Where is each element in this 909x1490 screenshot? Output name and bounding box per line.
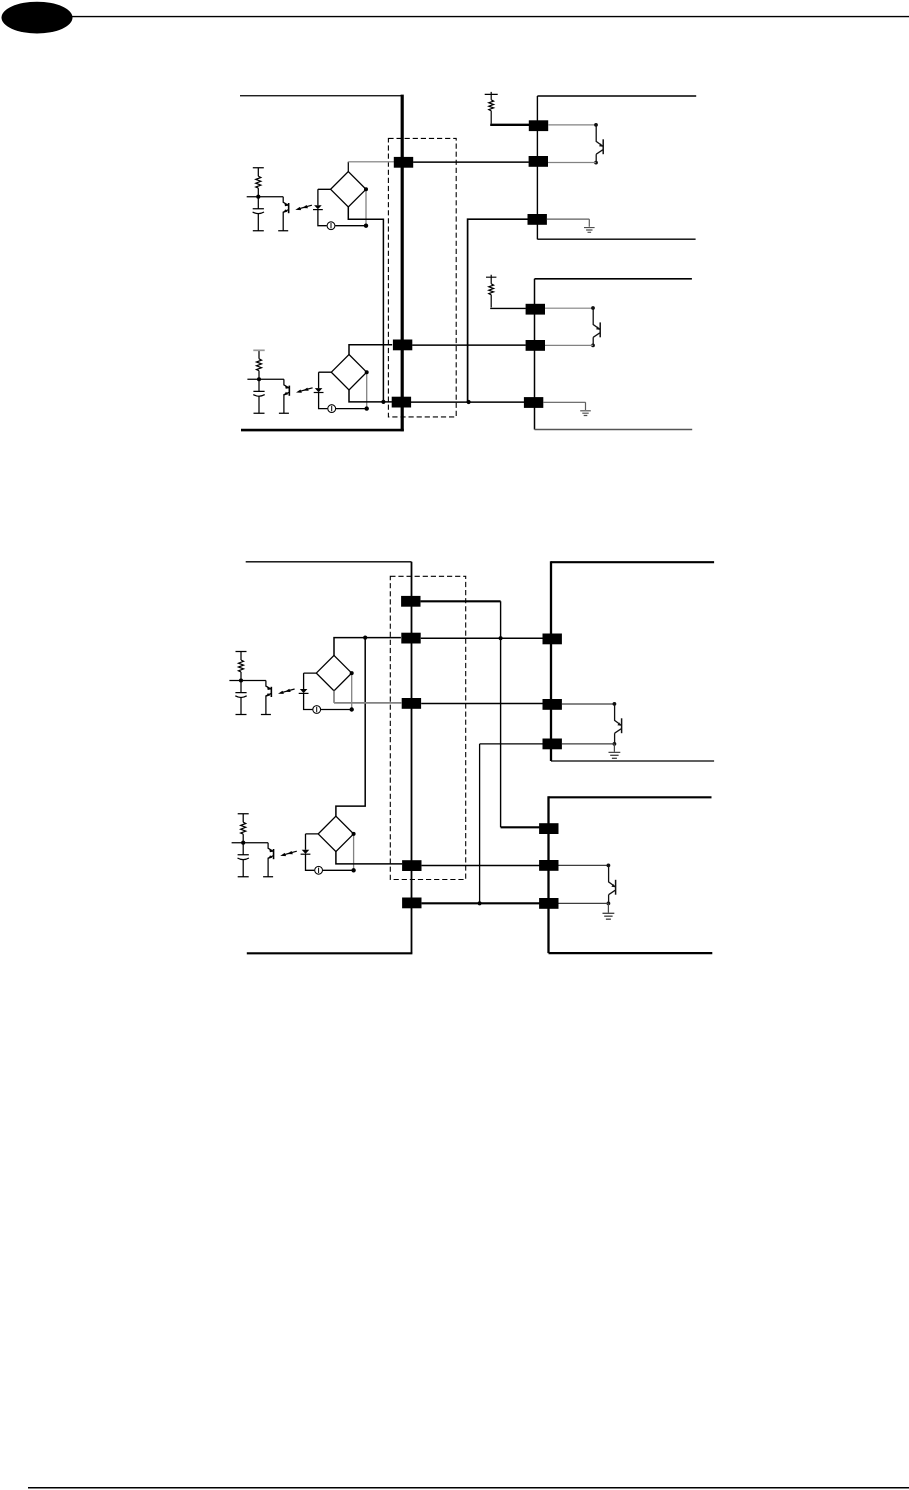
wire (grey) V2-3 to Q4 emitter	[559, 902, 609, 904]
wire Q1 emitter	[595, 154, 597, 162]
wire B3 top to row2	[334, 638, 401, 656]
wire (grey) U2-3 to ground	[543, 402, 585, 410]
wire (grey) V2-2 to Q4 collector	[559, 864, 609, 866]
wire (grey) U1-2 to Q1 emitter	[548, 162, 596, 164]
controller2 bus line	[411, 562, 413, 954]
wire B2 top to terminal T2	[349, 345, 392, 355]
terminal U2-2	[526, 340, 545, 351]
transistor Q4	[607, 864, 616, 895]
terminal U1-2	[529, 156, 548, 167]
wire link to B4	[336, 638, 365, 817]
shielded cable box	[388, 138, 456, 417]
terminal V2-3	[539, 898, 558, 909]
wire drive COM link	[468, 219, 528, 402]
wire row1 power feed	[421, 600, 501, 602]
driver unit 2 frame bottom	[535, 429, 693, 431]
terminal V1-2	[543, 699, 562, 710]
junction dot row5	[478, 901, 482, 905]
transistor Q2	[591, 306, 600, 337]
wire Q4 emitter	[608, 895, 610, 904]
node Q2 emitter dot	[591, 344, 595, 348]
driver unit 2 frame left	[534, 279, 536, 430]
wire feed drop	[500, 601, 502, 827]
footer rule	[28, 1487, 909, 1489]
terminal S3	[402, 698, 421, 709]
wire Q3 emitter	[614, 733, 616, 744]
wire row5	[422, 902, 540, 904]
receiver unit 1 frame bottom	[551, 760, 714, 762]
node Q1 emitter dot	[594, 161, 598, 165]
terminal V1-3	[543, 739, 562, 750]
terminal V2-1	[539, 823, 558, 834]
terminal V2-2	[539, 860, 558, 871]
wire B1 bottom run down	[348, 207, 383, 402]
transistor Q3	[613, 702, 622, 733]
driver unit 2 frame top	[535, 278, 692, 280]
wire (grey) V1-3 to Q3 emitter	[562, 743, 615, 745]
ground GND3	[609, 752, 621, 758]
driver unit 1 frame top	[537, 95, 696, 97]
driver unit 1 frame bottom	[537, 238, 695, 240]
terminal U1-3	[528, 214, 547, 225]
junction dot row2	[363, 636, 367, 640]
wire row3	[421, 703, 543, 705]
terminal T3	[392, 397, 411, 408]
controller bus line	[401, 95, 404, 432]
terminal U1-1	[529, 120, 548, 131]
receiver unit 1 frame top	[551, 561, 714, 563]
wire (grey) U2-1 to Q2 collector	[545, 307, 593, 309]
wire (grey) B3 bottom to terminal S3	[334, 691, 401, 703]
node Q4 emitter dot	[607, 902, 611, 906]
junction dot row3-right	[467, 400, 471, 404]
page number badge	[2, 2, 73, 34]
wire row2	[421, 637, 543, 639]
wire (grey) U1-1 to Q1 collector	[548, 124, 596, 126]
optocoupler PC4 input side	[232, 814, 297, 877]
transistor Q1	[594, 123, 603, 154]
junction dot row3	[381, 400, 385, 404]
terminal U2-3	[524, 397, 543, 408]
terminal S2	[401, 633, 420, 644]
diode bridge B4 with LED and current source	[301, 816, 356, 874]
terminal T2	[393, 340, 412, 351]
node Q3 emitter dot	[613, 742, 617, 746]
receiver unit 1 frame left	[550, 561, 552, 761]
optocoupler PC2 input side	[247, 350, 312, 413]
controller2 frame top wire	[246, 561, 412, 563]
controller frame top wire	[240, 95, 402, 97]
diode bridge B2 with LED and current source	[314, 355, 369, 413]
terminal U2-1	[526, 304, 545, 315]
ground GND3 stem	[613, 744, 615, 752]
ground GND2	[580, 411, 591, 416]
wire feed to RB2 terminal	[501, 826, 540, 828]
ground GND4	[603, 913, 615, 919]
diode bridge B3 with LED and current source	[299, 655, 354, 713]
junction dot feed/row2	[499, 636, 503, 640]
terminal T1	[394, 157, 413, 168]
resistor R2 pull-up	[486, 275, 496, 308]
shielded cable box 2	[390, 576, 465, 879]
terminal S5	[402, 898, 421, 909]
wire row3	[411, 401, 524, 403]
terminal V1-1	[543, 634, 562, 645]
wire Q2 emitter	[592, 337, 594, 345]
ground GND4 stem	[607, 903, 609, 912]
controller frame bottom wire	[241, 429, 404, 432]
resistor R1 pull-up	[485, 92, 498, 124]
ground GND1	[584, 228, 595, 233]
optocoupler PC3 input side	[229, 652, 294, 715]
wire B4 bottom to row4	[336, 851, 402, 864]
receiver unit 2 frame left	[547, 796, 549, 953]
wire B1 top to terminal	[347, 162, 349, 172]
wire (grey) U1-3 to ground	[547, 219, 589, 227]
wire row1	[413, 161, 529, 163]
driver unit 1 frame left	[536, 96, 538, 239]
diode bridge B1 with LED and current source	[313, 172, 368, 230]
controller2 frame bottom wire	[247, 952, 413, 954]
receiver unit 2 frame top	[549, 796, 712, 798]
optocoupler PC1 input side	[247, 168, 312, 231]
wire (grey) to terminal T1	[348, 161, 394, 163]
wire R2 to terminal U2-1	[490, 307, 526, 309]
wire B2 bottom to row3	[349, 390, 392, 402]
wire row2	[412, 344, 526, 346]
wire V3-3 link down	[480, 744, 543, 903]
power bar (grey) PC2	[253, 349, 264, 351]
wire (grey) V1-2 to Q3 collector	[562, 703, 615, 705]
wire row4	[422, 865, 540, 867]
receiver unit 2 frame bottom	[549, 952, 713, 954]
header rule	[70, 16, 909, 18]
terminal S4	[402, 860, 421, 871]
wire (grey) U2-2 to Q2 emitter	[545, 344, 593, 346]
terminal S1	[401, 596, 420, 607]
wire R1 to terminal U1-1	[490, 124, 529, 126]
